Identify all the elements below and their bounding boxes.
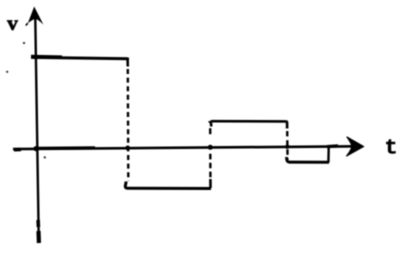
svg-text:t: t: [385, 137, 398, 161]
t-axis arrowhead: [347, 137, 364, 156]
junction blob at x=127.6 on t-axis: [125, 146, 130, 151]
waveform plateau 1 (first positive level): [31, 56, 129, 59]
junction blob at x=210.3 on t-axis: [208, 145, 213, 150]
waveform low level 1 (first negative level): [125, 182, 211, 189]
scan speck near v-axis upper: [23, 42, 25, 44]
transition 1 (dashed vertical at x=127.8): [126, 59, 129, 182]
axis label v: [7, 11, 18, 35]
waveform plateau 2 (second positive level): [209, 121, 286, 126]
waveform right edge (vertical back to axis): [327, 146, 338, 163]
v-axis arrowhead: [26, 7, 44, 26]
junction blob at origin (axes crossing): [33, 146, 39, 151]
junction blob at x=287.3 on t-axis: [285, 145, 289, 149]
transition 2 (dashed vertical at x=210.4): [209, 128, 212, 188]
transition 3 (dashed vertical at x=287): [286, 121, 288, 159]
scan speck left margin: [6, 71, 8, 73]
t-axis: [13, 146, 356, 149]
scan speck below origin: [44, 156, 46, 158]
waveform low level 2 (small negative level): [287, 157, 329, 162]
axis label t: [385, 137, 398, 161]
svg-text:v: v: [7, 11, 18, 35]
v-axis: [35, 13, 39, 243]
